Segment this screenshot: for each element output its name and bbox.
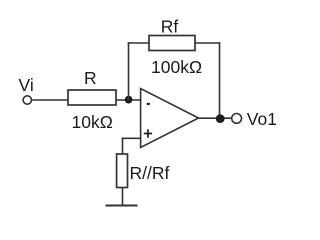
wire non-inverting input vertical (122, 138, 124, 155)
svg-text:R//Rf: R//Rf (130, 163, 170, 183)
svg-text:Rf: Rf (161, 17, 179, 37)
wire junction up to feedback (128, 42, 130, 100)
junction node at output (216, 114, 225, 123)
junction node at inverting input (125, 96, 133, 104)
wire R to op-amp inverting input (116, 99, 141, 101)
wire non-inverting input horizontal (122, 137, 141, 139)
ground (106, 205, 138, 207)
wire op-amp output (199, 117, 233, 119)
wire R//Rf to ground (122, 188, 124, 206)
svg-text:R: R (84, 68, 97, 88)
svg-text:Vi: Vi (19, 75, 34, 95)
op-amp non-inverting pin plus sign (144, 129, 152, 137)
svg-text:Vo1: Vo1 (247, 109, 277, 129)
svg-text:100kΩ: 100kΩ (151, 57, 202, 77)
op-amp U1 triangle (141, 89, 199, 148)
op-amp inverting pin minus sign (147, 103, 150, 105)
svg-text:10kΩ: 10kΩ (72, 112, 113, 132)
wire feedback left horizontal (128, 42, 149, 44)
node Vo1 output terminal (232, 114, 242, 124)
wire Vi to R (32, 99, 68, 101)
resistor Rf (149, 36, 195, 51)
resistor R//Rf (117, 154, 128, 188)
wire feedback down to output (219, 42, 221, 118)
node Vi input terminal (23, 96, 31, 104)
wire feedback right horizontal (195, 42, 220, 44)
resistor R (68, 90, 116, 105)
